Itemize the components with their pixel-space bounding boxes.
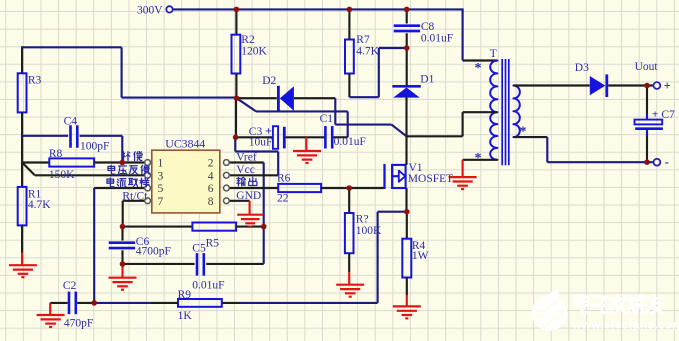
svg-text:R9: R9 [178, 289, 192, 301]
svg-text:6: 6 [208, 183, 214, 195]
svg-text:UC3844: UC3844 [165, 136, 205, 150]
svg-text:1: 1 [158, 158, 164, 170]
svg-text:100pF: 100pF [80, 141, 109, 153]
svg-text:8: 8 [208, 196, 214, 208]
svg-text:150K: 150K [49, 169, 75, 181]
svg-text:4.7K: 4.7K [356, 45, 379, 57]
svg-text:-: - [665, 154, 669, 169]
svg-text:2: 2 [208, 158, 214, 170]
svg-text:120K: 120K [241, 45, 267, 57]
svg-text:3: 3 [158, 170, 164, 182]
svg-text:4: 4 [208, 170, 214, 182]
svg-text:C2: C2 [63, 280, 77, 292]
svg-text:C5: C5 [192, 242, 206, 254]
svg-text:*: * [520, 124, 527, 139]
svg-text:+: + [652, 109, 658, 121]
svg-text:5: 5 [158, 183, 164, 195]
svg-text:*: * [475, 151, 482, 166]
svg-text:C7: C7 [661, 109, 675, 121]
svg-text:1W: 1W [412, 250, 429, 262]
svg-text:www.elecfans.com: www.elecfans.com [571, 317, 679, 331]
svg-text:Uout: Uout [635, 61, 659, 73]
svg-text:D1: D1 [420, 73, 434, 85]
svg-text:R6: R6 [277, 172, 291, 184]
svg-text:R5: R5 [206, 238, 220, 250]
svg-text:1K: 1K [178, 310, 193, 322]
svg-text:Rt/Ct: Rt/Ct [122, 191, 148, 203]
svg-text:Vcc: Vcc [236, 164, 255, 176]
svg-text:*: * [475, 61, 482, 76]
svg-text:0.01uF: 0.01uF [334, 136, 366, 148]
svg-text:MOSFET: MOSFET [408, 173, 453, 185]
svg-text:22: 22 [277, 193, 289, 205]
svg-text:0.01uF: 0.01uF [192, 280, 224, 292]
svg-text:0.01uF: 0.01uF [421, 32, 453, 44]
svg-text:C4: C4 [64, 116, 78, 128]
svg-text:7: 7 [158, 196, 164, 208]
svg-text:R?: R? [356, 213, 369, 225]
svg-text:R8: R8 [49, 148, 63, 160]
svg-text:C1: C1 [320, 113, 334, 125]
svg-text:10uF: 10uF [249, 137, 273, 149]
svg-text:4.7K: 4.7K [28, 199, 51, 211]
svg-text:300V: 300V [137, 4, 163, 16]
svg-text:GND: GND [236, 190, 261, 202]
svg-text:+: + [664, 79, 671, 93]
svg-text:470pF: 470pF [64, 317, 93, 329]
svg-text:100K: 100K [356, 225, 382, 237]
svg-text:4700pF: 4700pF [136, 246, 171, 258]
svg-text:C8: C8 [421, 21, 435, 33]
svg-text:D3: D3 [575, 62, 589, 74]
svg-text:R3: R3 [28, 74, 42, 86]
svg-text:T: T [490, 48, 497, 60]
svg-text:D2: D2 [262, 75, 276, 87]
svg-text:Vref: Vref [236, 151, 257, 163]
svg-text:+: + [265, 123, 272, 137]
